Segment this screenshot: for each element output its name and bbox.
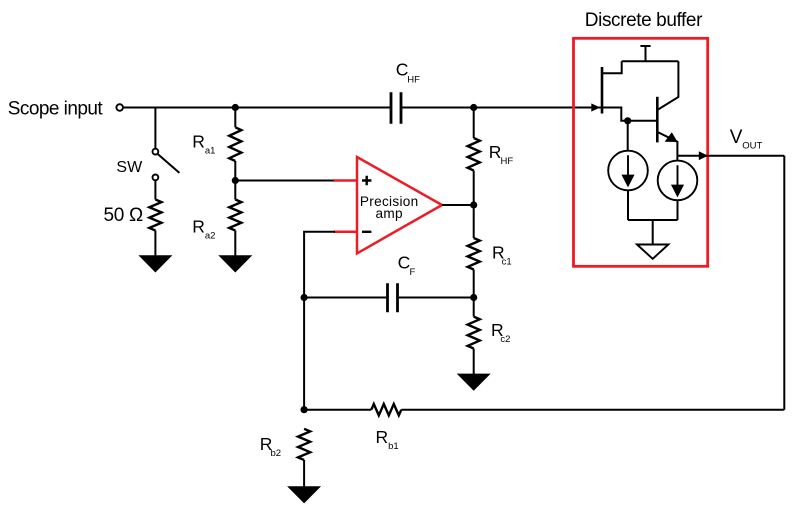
wire: R_b2 to ground	[303, 460, 305, 487]
wire: I1 to bottom rail	[627, 190, 629, 220]
ground (50 ohm)	[140, 256, 172, 272]
ground (R_a2)	[220, 256, 252, 272]
wire: node to C_F left plate	[304, 297, 387, 299]
wire: input terminal to C_HF left plate	[123, 107, 391, 109]
wire: tap to R_a2	[234, 181, 236, 200]
wire: R_c1 to C_F node	[473, 270, 475, 298]
node: C_F left junction	[301, 294, 308, 301]
wire: red stub plus input	[334, 179, 357, 182]
switch SW upper contact	[153, 149, 159, 155]
svg-text:R: R	[489, 142, 502, 162]
resistor R_HF	[468, 138, 480, 171]
wire: tap to op-amp plus input	[235, 180, 335, 182]
capacitor C_F	[388, 283, 398, 312]
transistor Q1 JFET source	[602, 108, 628, 121]
wire: junction to R_a1	[234, 108, 236, 128]
wire: buffer top rail	[622, 60, 679, 62]
op-amp U1 Precision amp	[357, 157, 442, 253]
op-amp plus sign	[362, 176, 371, 185]
current source I1	[608, 151, 648, 191]
supply rail T	[640, 46, 650, 61]
ground (R_c2)	[458, 374, 490, 390]
transistor Q2 BJT base bar	[656, 97, 659, 143]
svg-text:V: V	[730, 127, 743, 148]
wire: switch to 50 ohm resistor	[154, 181, 156, 200]
svg-text:F: F	[410, 267, 416, 278]
resistor R_b2	[298, 429, 310, 460]
svg-text:SW: SW	[116, 159, 143, 176]
svg-text:HF: HF	[501, 156, 514, 167]
wire: R_b1 to feedback corner	[401, 409, 784, 411]
transistor Q1 JFET drain	[602, 61, 622, 73]
wire: junction to R_b1	[304, 409, 371, 411]
svg-text:Scope input: Scope input	[8, 98, 104, 119]
svg-text:c1: c1	[502, 256, 512, 267]
wire: V_OUT line	[677, 155, 784, 157]
input terminal	[116, 104, 123, 111]
resistor R_c1	[468, 238, 480, 269]
capacitor C_HF	[391, 92, 401, 123]
wire: C_HF to buffer input	[401, 107, 601, 109]
current source I2	[658, 161, 698, 201]
wire: op-amp minus input to feedback column	[304, 232, 335, 410]
switch SW lower contact	[153, 175, 159, 181]
wire: junction to Q2 base	[628, 120, 658, 122]
arrow: Q2 emitter	[665, 132, 678, 142]
transistor Q2 BJT collector	[657, 61, 678, 110]
wire: R_a2 to ground	[234, 231, 236, 257]
transistor Q2 BJT emitter	[657, 132, 677, 161]
wire: op-amp output	[442, 204, 474, 206]
node: C_HF/R_HF junction	[470, 104, 477, 111]
resistor R_a1	[229, 127, 241, 161]
wire: 50 ohm to ground	[154, 231, 156, 257]
wire: R_a1 to tap node	[234, 161, 236, 181]
resistor R_c2	[468, 317, 480, 349]
wire: junction to R_HF	[473, 108, 475, 139]
transistor Q1 JFET channel bar	[601, 67, 604, 114]
resistor R_a2	[229, 200, 241, 231]
arrow: V_OUT	[699, 151, 708, 160]
svg-text:amp: amp	[376, 206, 403, 221]
node: input/R_a1 junction	[232, 104, 239, 111]
node: R_b2/R_b1 junction	[301, 406, 308, 413]
wire: junction to I1	[627, 121, 629, 151]
ground (buffer, open triangle)	[637, 245, 668, 259]
wire: red stub minus input	[334, 231, 357, 234]
switch SW blade	[158, 154, 179, 173]
wire: I2 to bottom rail	[677, 200, 679, 220]
wire: output node to R_c1	[473, 205, 475, 238]
discrete buffer box	[574, 38, 708, 266]
svg-text:c2: c2	[500, 334, 510, 345]
wire: R_HF to output node	[473, 171, 475, 206]
node: R_c1/R_c2/C_F junction	[470, 294, 477, 301]
svg-text:b2: b2	[271, 448, 282, 459]
wire: feedback vertical from V_OUT	[783, 156, 785, 410]
node: buffer internal junction	[624, 117, 631, 124]
svg-text:OUT: OUT	[742, 141, 762, 152]
wire: C_F right plate to R_c1 node	[398, 297, 474, 299]
wire: R_c2 to ground	[473, 349, 475, 375]
wire: switch branch vertical	[154, 108, 156, 149]
svg-text:50 Ω: 50 Ω	[104, 205, 144, 226]
resistor R_b1	[371, 404, 401, 415]
resistor 50 ohm	[149, 200, 161, 231]
ground (R_b2)	[288, 487, 320, 503]
arrow: buffer input	[591, 103, 600, 111]
wire: buffer bottom rail	[628, 219, 678, 221]
node: op-amp output/R_HF/R_c1	[470, 201, 477, 208]
svg-text:Discrete buffer: Discrete buffer	[585, 10, 703, 31]
wire: bottom rail to buffer ground	[652, 220, 654, 245]
op-amp minus sign	[362, 231, 371, 233]
wire: node to R_c2	[473, 298, 475, 317]
node: R_a1/R_a2 tap	[232, 177, 239, 184]
arrow: I1 direction	[623, 155, 633, 185]
svg-text:HF: HF	[407, 75, 420, 86]
arrow: I2 direction	[673, 165, 683, 195]
svg-text:C: C	[398, 252, 411, 272]
